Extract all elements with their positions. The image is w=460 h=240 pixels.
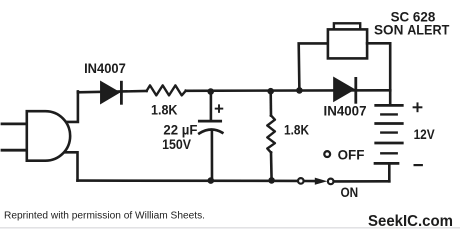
- OFF position circle: [324, 151, 330, 157]
- battery B1 plate short 3: [381, 152, 396, 154]
- svg-text:150V: 150V: [162, 136, 191, 152]
- wire R2 top lead: [269, 91, 272, 115]
- diode D1 IN4007 triangle: [101, 82, 119, 103]
- wire sonalert left lead: [299, 43, 328, 90]
- diode D1 cathode bar: [120, 82, 123, 103]
- battery B1 plate long 2: [376, 122, 403, 125]
- wire bottom rail right segment: [334, 180, 389, 183]
- diode D2 IN4007 triangle: [334, 78, 354, 101]
- svg-text:OFF: OFF: [338, 147, 365, 163]
- battery B1 plate long 3: [376, 142, 403, 145]
- switch S1 arrow: [315, 178, 328, 185]
- switch S1 terminal circle left: [298, 178, 304, 184]
- AC plug body: [27, 111, 70, 161]
- sonalert BZ1 body box: [328, 29, 367, 58]
- wire top rail left segment: [78, 91, 147, 92]
- capacitor C1 bottom curved plate: [199, 130, 222, 134]
- svg-text:SON: SON: [374, 22, 403, 38]
- node junction capacitor top: [207, 88, 214, 95]
- wire battery bottom lead: [388, 163, 391, 181]
- diode D2 cathode bar: [354, 78, 357, 102]
- svg-text:Reprinted with permission of W: Reprinted with permission of William She…: [4, 210, 205, 221]
- resistor R2 1.8K vertical zigzag: [267, 115, 275, 152]
- svg-text:1.8K: 1.8K: [284, 121, 309, 137]
- svg-text:IN4007: IN4007: [84, 60, 126, 76]
- svg-text:IN4007: IN4007: [324, 103, 367, 119]
- node junction sonalert left: [296, 87, 303, 94]
- node junction resistor R2 bottom: [268, 177, 275, 184]
- node junction resistor R2 top: [267, 88, 274, 95]
- wire plug top to rail: [62, 91, 78, 122]
- sonalert BZ1 top tab: [334, 23, 360, 29]
- svg-text:12V: 12V: [414, 126, 436, 142]
- switch S1 terminal circle right: [328, 179, 334, 185]
- wire R2 bottom lead: [270, 152, 273, 180]
- wire capacitor top lead: [210, 92, 213, 121]
- battery B1 plate short 1: [381, 113, 396, 115]
- capacitor C1 top plate: [199, 120, 220, 123]
- battery minus mark: [415, 164, 422, 166]
- plug prong bottom: [2, 149, 27, 152]
- battery plus mark: [414, 103, 422, 111]
- svg-text:ALERT: ALERT: [407, 22, 449, 38]
- resistor R1 1.8K zigzag: [147, 85, 186, 95]
- battery B1 plate short 2: [381, 131, 396, 133]
- capacitor plus mark: [216, 105, 223, 112]
- plug prong top: [2, 123, 27, 126]
- svg-text:1.8K: 1.8K: [151, 102, 178, 118]
- wire top rail right segment: [186, 89, 390, 92]
- switch S1 pole tail: [304, 180, 315, 183]
- wire capacitor bottom lead: [211, 130, 214, 181]
- battery B1 plate long bottom: [375, 162, 398, 165]
- wire bottom rail left segment: [78, 179, 298, 182]
- wire sonalert right lead down to battery: [367, 43, 390, 105]
- battery B1 plate long 1: [376, 104, 403, 107]
- footer faint rule: [0, 227, 460, 229]
- node junction capacitor bottom: [208, 177, 215, 184]
- svg-text:ON: ON: [341, 184, 359, 200]
- wire plug bottom to bottom rail: [64, 152, 78, 180]
